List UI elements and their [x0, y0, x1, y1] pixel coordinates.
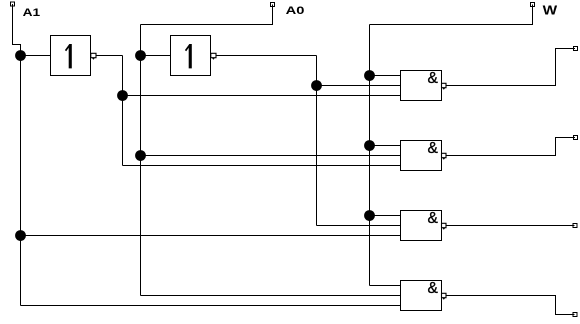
svg-text:&: & — [428, 280, 439, 297]
svg-text:W: W — [543, 4, 558, 18]
svg-text:A1: A1 — [23, 7, 40, 19]
svg-text:&: & — [428, 140, 439, 157]
svg-text:&: & — [428, 70, 439, 87]
svg-text:&: & — [428, 210, 439, 227]
svg-text:A0: A0 — [286, 5, 305, 17]
